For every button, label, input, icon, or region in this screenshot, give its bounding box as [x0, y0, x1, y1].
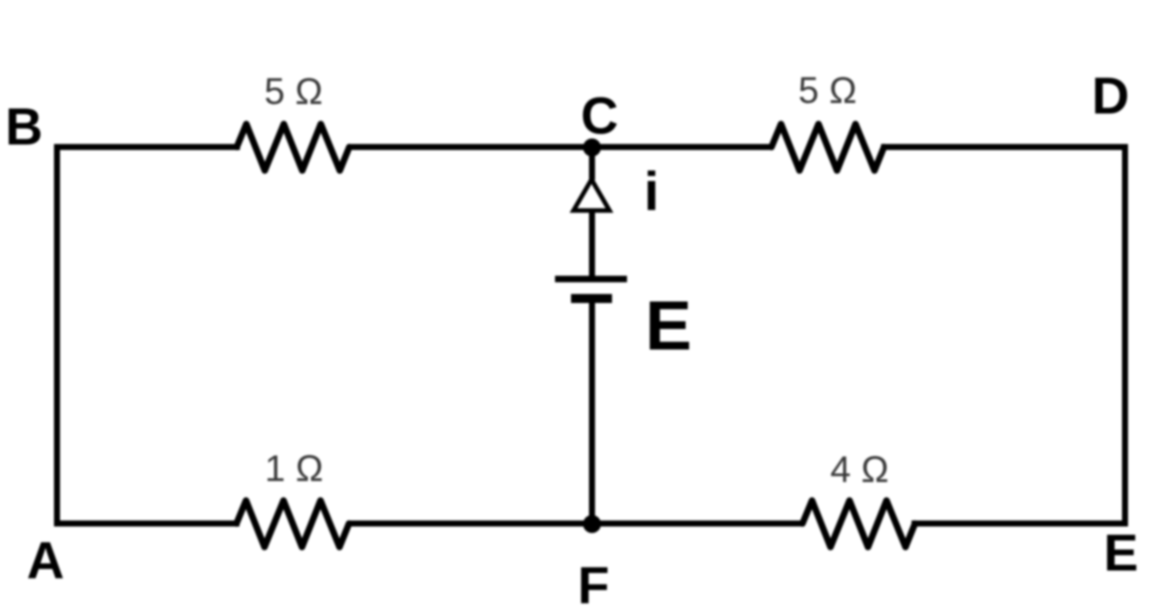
- resistor R3 1 ohm (bottom left zigzag): [237, 501, 350, 548]
- svg-text:A: A: [27, 532, 65, 590]
- svg-text:i: i: [644, 160, 659, 222]
- wire R1 to node C: [349, 144, 592, 150]
- wire R3 to node F: [349, 521, 593, 527]
- wire B to R1 (top left): [57, 144, 237, 150]
- svg-text:5 Ω: 5 Ω: [798, 70, 857, 111]
- wire battery to node F (middle branch lower): [589, 303, 595, 524]
- wire R2 to corner D: [884, 144, 1125, 150]
- svg-text:1 Ω: 1 Ω: [265, 448, 324, 489]
- wire node F to R4: [592, 521, 803, 527]
- svg-text:B: B: [5, 99, 43, 157]
- wire right side D to E: [1122, 147, 1128, 524]
- node F junction dot: [583, 515, 601, 533]
- svg-text:D: D: [1092, 68, 1130, 126]
- wire node C to R2: [592, 144, 772, 150]
- current arrow head (open triangle pointing up): [574, 180, 610, 211]
- svg-text:F: F: [578, 557, 610, 613]
- svg-text:E: E: [645, 287, 692, 365]
- node C junction dot: [583, 139, 601, 157]
- svg-text:4 Ω: 4 Ω: [830, 449, 889, 490]
- resistor R1 5 ohm (top left zigzag): [237, 124, 349, 171]
- svg-text:5 Ω: 5 Ω: [264, 71, 323, 112]
- wire left side B to A: [54, 147, 60, 524]
- battery E negative plate (short thick line): [571, 294, 612, 303]
- resistor R2 5 ohm (top right zigzag): [772, 124, 885, 171]
- wire R4 to corner E: [915, 521, 1126, 527]
- svg-text:C: C: [581, 88, 619, 146]
- wire node C to arrow apex (middle branch upper): [589, 147, 595, 180]
- wire A to R3 (bottom left): [57, 521, 237, 527]
- wire arrow to battery: [589, 211, 595, 276]
- battery E positive plate (long line): [555, 276, 627, 283]
- svg-text:E: E: [1104, 525, 1139, 583]
- resistor R4 4 ohm (bottom right zigzag): [803, 501, 916, 548]
